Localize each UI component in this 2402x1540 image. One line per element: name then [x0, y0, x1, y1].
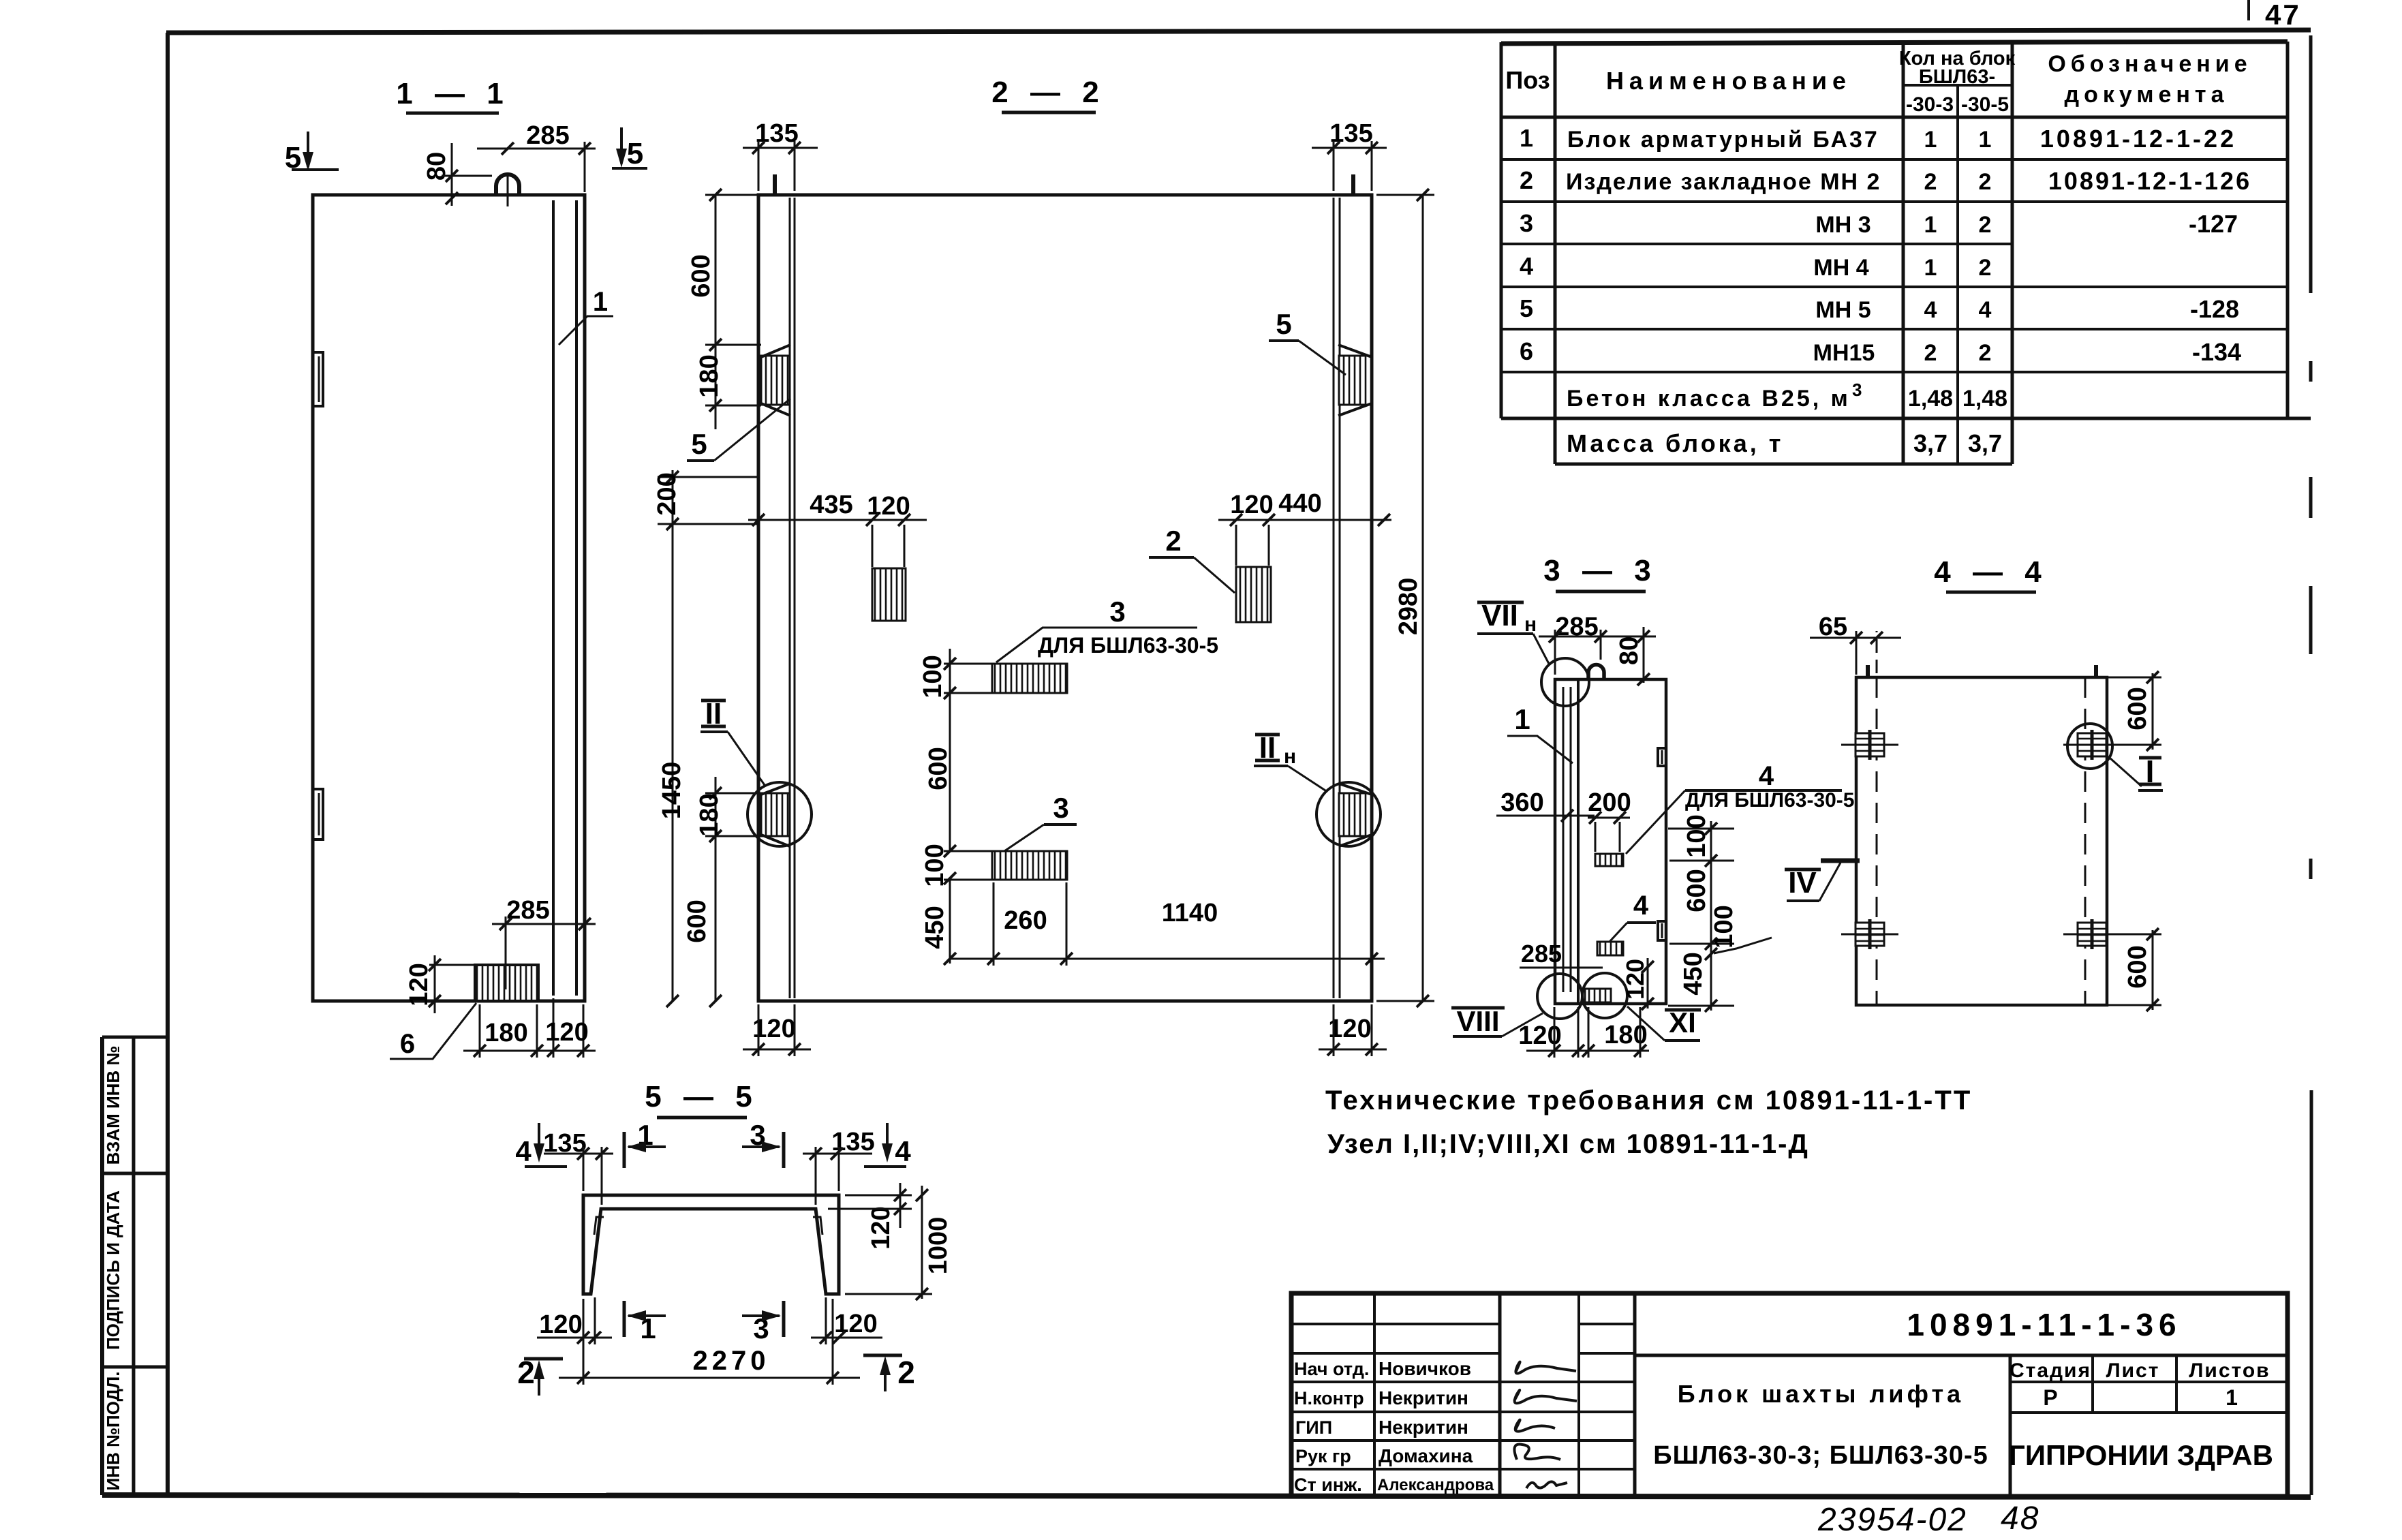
- top tick right wall: [1351, 174, 1355, 195]
- left column cell line 1: [102, 1172, 168, 1175]
- svg-text:600: 600: [1682, 869, 1711, 912]
- svg-text:1: 1: [1979, 127, 1992, 153]
- section 2-2 body outline: [758, 195, 1372, 1001]
- svg-text:435: 435: [810, 491, 852, 519]
- svg-text:120: 120: [867, 492, 910, 521]
- svg-text:2 — 2: 2 — 2: [991, 76, 1105, 109]
- section 3-3 body outline: [1555, 679, 1666, 1004]
- top tick right: [2094, 665, 2098, 677]
- svg-text:1: 1: [1924, 127, 1937, 153]
- svg-text:10891-12-1-22: 10891-12-1-22: [2040, 125, 2236, 153]
- svg-text:120: 120: [539, 1310, 582, 1339]
- stadia values bottom: [2010, 1411, 2288, 1414]
- svg-text:Бетон класса В25, м: Бетон класса В25, м: [1567, 386, 1851, 412]
- section 1-1 title underline: [406, 112, 499, 115]
- svg-text:2270: 2270: [693, 1346, 770, 1376]
- svg-text:180: 180: [695, 354, 724, 397]
- svg-text:120: 120: [545, 1018, 588, 1047]
- list/listov divider: [2175, 1355, 2178, 1413]
- svg-text:Нач отд.: Нач отд.: [1294, 1359, 1369, 1379]
- tie embed bottom right: [2078, 923, 2106, 946]
- embed block IIn right wall: [1339, 793, 1372, 836]
- left inner dim chain: [715, 195, 717, 429]
- row6 bottom: [1501, 371, 2288, 373]
- leg step mark right: [813, 1217, 822, 1235]
- svg-text:1: 1: [1520, 124, 1533, 152]
- sig row gip bottom: [1291, 1439, 1635, 1442]
- svg-text:-30-3: -30-3: [1906, 93, 1954, 116]
- svg-text:документа: документа: [2065, 82, 2229, 108]
- tick before 47: [2247, 0, 2250, 20]
- dashed line right: [2084, 677, 2087, 1005]
- embed block c middle hatched: [992, 664, 1067, 693]
- svg-text:1,48: 1,48: [1962, 386, 2007, 412]
- svg-text:МН15: МН15: [1813, 340, 1875, 366]
- svg-text:2: 2: [1979, 340, 1992, 366]
- row1 bottom: [1501, 158, 2288, 161]
- svg-text:Узел I,II;IV;VIII,XI см 10891: Узел I,II;IV;VIII,XI см 10891-11-1-Д: [1327, 1129, 1809, 1159]
- svg-text:Некритин: Некритин: [1379, 1417, 1468, 1438]
- embed block b upper right hatched: [1236, 567, 1271, 622]
- svg-text:-134: -134: [2192, 338, 2241, 366]
- svg-text:ДЛЯ БШЛ63-30-5: ДЛЯ БШЛ63-30-5: [1038, 633, 1218, 658]
- frame bottom border: [102, 1495, 2311, 1497]
- left column divider: [132, 1037, 136, 1495]
- col divider role/name: [1373, 1293, 1376, 1496]
- svg-text:1450: 1450: [658, 762, 686, 820]
- svg-text:600: 600: [687, 254, 715, 297]
- svg-text:2: 2: [897, 1355, 915, 1390]
- embed plate 4 lower hatched: [1597, 942, 1623, 955]
- row3 bottom (not in doc col): [1501, 243, 2012, 245]
- left wall inner line b: [794, 198, 796, 998]
- svg-text:285: 285: [1521, 940, 1562, 968]
- svg-text:3: 3: [1852, 380, 1862, 400]
- svg-text:2: 2: [1520, 166, 1533, 194]
- left column top line: [102, 1036, 168, 1039]
- row4 bottom: [1501, 286, 2288, 288]
- svg-text:3: 3: [1053, 792, 1068, 824]
- massa row bottom: [1555, 463, 2012, 466]
- top tick left wall: [773, 174, 777, 195]
- svg-text:2: 2: [1924, 340, 1937, 366]
- wall inner boundary: [1577, 679, 1580, 1004]
- svg-text:2: 2: [1979, 255, 1992, 281]
- narrow col extra row lines: [1579, 1323, 1635, 1325]
- svg-text:260: 260: [1004, 906, 1047, 935]
- svg-text:Ст инж.: Ст инж.: [1294, 1475, 1362, 1495]
- embed plate XI hatched: [1585, 989, 1611, 1002]
- cut mark 4 down right: [886, 1123, 889, 1157]
- section 4-4 title underline: [1946, 591, 2036, 594]
- sig row nkontr bottom: [1291, 1411, 1635, 1413]
- col divider sign/narrow: [1577, 1293, 1580, 1496]
- signature 4: [1514, 1444, 1560, 1460]
- embed plate 6 hatched block: [475, 965, 538, 1001]
- svg-text:1: 1: [1924, 212, 1937, 238]
- sig table top row line 1: [1291, 1323, 1500, 1325]
- svg-text:1: 1: [1514, 703, 1530, 735]
- svg-text:ГИПРОНИИ ЗДРАВ: ГИПРОНИИ ЗДРАВ: [2009, 1439, 2273, 1471]
- left edge notch upper: [313, 352, 323, 406]
- svg-text:4: 4: [1633, 891, 1649, 921]
- svg-text:4: 4: [515, 1135, 532, 1167]
- svg-text:-128: -128: [2190, 295, 2239, 323]
- svg-text:2: 2: [1924, 169, 1937, 195]
- svg-text:-127: -127: [2189, 210, 2238, 238]
- embed 5 right wall hatched block: [1339, 356, 1372, 405]
- svg-text:2: 2: [1165, 525, 1181, 557]
- svg-text:Наименование: Наименование: [1606, 67, 1851, 95]
- left outer dim chain: [672, 470, 674, 1001]
- col divider name/qty: [1902, 42, 1905, 464]
- svg-text:ПОДПИСЬ И ДАТА: ПОДПИСЬ И ДАТА: [103, 1190, 123, 1350]
- svg-text:120: 120: [867, 1206, 895, 1249]
- right wall inner line b: [1339, 198, 1341, 998]
- node VIIn circle: [1541, 658, 1589, 706]
- svg-text:4 — 4: 4 — 4: [1934, 555, 2048, 589]
- section 3-3 title underline: [1556, 590, 1646, 594]
- signature 3: [1515, 1420, 1555, 1432]
- col divider poz/name: [1554, 42, 1557, 464]
- svg-text:3,7: 3,7: [1968, 429, 2002, 457]
- section 5-5 title underline: [657, 1116, 747, 1120]
- svg-text:Масса блока, т: Масса блока, т: [1567, 429, 1783, 457]
- col divider narrow/main: [1633, 1293, 1637, 1496]
- node IIn circle right: [1317, 782, 1381, 846]
- svg-text:450: 450: [921, 906, 949, 949]
- svg-text:48: 48: [2001, 1500, 2039, 1537]
- svg-text:Листов: Листов: [2189, 1359, 2270, 1382]
- svg-text:Н.контр: Н.контр: [1294, 1388, 1364, 1408]
- svg-text:1000: 1000: [924, 1217, 953, 1275]
- section 2-2 title underline: [1002, 111, 1096, 114]
- channel inner line a: [552, 200, 555, 996]
- svg-text:4: 4: [1759, 761, 1774, 791]
- svg-text:5 — 5: 5 — 5: [645, 1080, 758, 1113]
- svg-text:6: 6: [400, 1029, 415, 1059]
- svg-text:Новичков: Новичков: [1379, 1358, 1471, 1379]
- top tick left: [1866, 665, 1870, 677]
- header bottom line: [1501, 116, 2288, 119]
- embed plate 4 upper hatched: [1595, 854, 1623, 866]
- qty mid divider: [1956, 85, 1959, 464]
- cut mark 5 right: [620, 127, 623, 164]
- frame right border (dashed scan): [2311, 35, 2311, 1495]
- lower left chain ticks: [709, 787, 722, 799]
- embed block II left wall: [761, 793, 790, 836]
- svg-text:23954-02: 23954-02: [1817, 1502, 1967, 1538]
- table left edge: [1500, 42, 1503, 418]
- stadia header bottom: [2010, 1381, 2288, 1383]
- svg-text:200: 200: [653, 472, 681, 515]
- svg-text:120: 120: [1230, 491, 1273, 519]
- signature 1: [1515, 1362, 1576, 1374]
- svg-text:47: 47: [2265, 0, 2301, 31]
- tie embed top left: [1856, 733, 1884, 756]
- node IV mark on dashed line: [1821, 859, 1860, 863]
- sig row rukgr bottom: [1291, 1468, 1635, 1470]
- svg-text:Блок арматурный БА37: Блок арматурный БА37: [1567, 127, 1879, 153]
- lifting loop: [496, 174, 519, 195]
- section 4-4 body outline: [1856, 677, 2107, 1005]
- svg-text:Лист: Лист: [2106, 1359, 2160, 1382]
- svg-text:1140: 1140: [1162, 899, 1218, 927]
- svg-text:6: 6: [1520, 337, 1533, 365]
- svg-text:285: 285: [526, 121, 569, 150]
- svg-text:3,7: 3,7: [1913, 429, 1947, 457]
- svg-text:180: 180: [695, 793, 724, 836]
- section 1-1 body outline: [313, 195, 585, 1001]
- embed 5 left wall hatched block: [761, 356, 790, 405]
- channel inner line b: [575, 200, 578, 996]
- svg-text:4: 4: [1924, 297, 1937, 323]
- svg-text:-30-5: -30-5: [1961, 93, 2009, 116]
- sig row nachotd bottom: [1291, 1381, 1635, 1383]
- col divider name/sign: [1498, 1293, 1502, 1496]
- leg step mark left: [594, 1217, 604, 1235]
- svg-text:3: 3: [1109, 596, 1125, 628]
- qty header split line: [1903, 84, 2012, 87]
- svg-text:Домахина: Домахина: [1379, 1445, 1473, 1466]
- svg-text:МН 5: МН 5: [1815, 297, 1870, 323]
- embed block a upper left hatched: [872, 568, 906, 621]
- svg-text:3 — 3: 3 — 3: [1543, 554, 1657, 587]
- right edge notch upper: [1658, 748, 1666, 766]
- svg-text:ГИП: ГИП: [1295, 1417, 1332, 1438]
- svg-text:Изделие закладное МН 2: Изделие закладное МН 2: [1566, 169, 1881, 195]
- frame left border: [166, 33, 170, 1495]
- svg-text:1,48: 1,48: [1908, 386, 1953, 412]
- left column cell line 2: [102, 1366, 168, 1369]
- svg-text:5: 5: [691, 428, 707, 460]
- beton row bottom extends to border: [1501, 417, 2311, 420]
- svg-text:ИНВ №ПОДЛ.: ИНВ №ПОДЛ.: [103, 1371, 123, 1490]
- col divider qty/doc: [2011, 42, 2014, 464]
- sig table top row line 2: [1291, 1352, 1500, 1355]
- signature 2: [1514, 1390, 1577, 1403]
- svg-text:285: 285: [506, 896, 549, 925]
- svg-text:1: 1: [593, 287, 608, 317]
- svg-text:БШЛ63-30-3; БШЛ63-30-5: БШЛ63-30-3; БШЛ63-30-5: [1653, 1441, 1988, 1470]
- svg-text:360: 360: [1500, 788, 1543, 817]
- left wall inner line a: [789, 198, 791, 998]
- svg-text:2980: 2980: [1394, 578, 1423, 636]
- svg-text:3: 3: [1520, 209, 1533, 237]
- svg-text:5: 5: [1520, 294, 1533, 322]
- svg-text:600: 600: [2123, 945, 2152, 988]
- svg-text:180: 180: [484, 1019, 527, 1047]
- svg-text:ДЛЯ БШЛ63-30-5: ДЛЯ БШЛ63-30-5: [1685, 789, 1854, 812]
- svg-text:600: 600: [683, 899, 711, 942]
- svg-text:10891-11-1-36: 10891-11-1-36: [1907, 1307, 2181, 1342]
- node II circle left: [748, 782, 812, 846]
- channel line a: [1562, 687, 1565, 992]
- svg-text:450: 450: [1679, 952, 1708, 995]
- svg-text:Стадия: Стадия: [2010, 1359, 2091, 1382]
- frame top border: [166, 30, 2311, 33]
- svg-text:1 — 1: 1 — 1: [396, 77, 510, 110]
- svg-text:600: 600: [2123, 687, 2152, 730]
- svg-text:Александрова: Александрова: [1377, 1476, 1494, 1494]
- svg-text:Р: Р: [2043, 1385, 2057, 1410]
- svg-text:4: 4: [1979, 297, 1992, 323]
- channel line b: [1570, 687, 1572, 992]
- dashed line left: [1876, 677, 1878, 1005]
- svg-text:ВЗАМ ИНВ №: ВЗАМ ИНВ №: [103, 1046, 123, 1165]
- left edge notch lower: [313, 789, 323, 840]
- right dim chain 100 600 100 450: [1710, 821, 1712, 1011]
- svg-text:100: 100: [1710, 905, 1738, 948]
- right edge notch lower: [1658, 921, 1666, 940]
- svg-text:120: 120: [1621, 959, 1649, 1000]
- row2 bottom: [1501, 200, 2288, 203]
- svg-text:1: 1: [2226, 1385, 2238, 1410]
- row5 bottom: [1501, 328, 2288, 330]
- svg-text:100: 100: [919, 655, 947, 698]
- svg-text:VIII: VIII: [1456, 1005, 1499, 1037]
- svg-text:Поз: Поз: [1505, 66, 1550, 94]
- svg-text:2: 2: [1979, 169, 1992, 195]
- svg-text:Обозначение: Обозначение: [2048, 51, 2251, 77]
- svg-text:600: 600: [924, 747, 953, 790]
- title block outer box: [1291, 1293, 2288, 1496]
- table outer top: [1501, 42, 2288, 44]
- svg-text:5: 5: [627, 137, 643, 170]
- tie embed bottom left: [1856, 923, 1884, 946]
- svg-text:Блок шахты лифта: Блок шахты лифта: [1678, 1380, 1964, 1408]
- stadia/list divider: [2091, 1355, 2094, 1413]
- col divider main/right: [2009, 1355, 2012, 1496]
- svg-text:120: 120: [1328, 1015, 1371, 1043]
- svg-text:100: 100: [1682, 814, 1711, 857]
- signature 5: [1526, 1481, 1567, 1488]
- svg-text:440: 440: [1278, 489, 1321, 518]
- svg-text:5: 5: [1276, 308, 1291, 340]
- cut mark 2 up right: [863, 1354, 902, 1357]
- svg-text:Технические требования см: Технические требования см 10891-11-1-ТТ: [1325, 1085, 1972, 1115]
- right wall inner line a: [1333, 198, 1335, 998]
- tie embed top right with node I circle: [2078, 733, 2106, 756]
- node VIII circle: [1537, 974, 1582, 1019]
- svg-text:МН 3: МН 3: [1815, 212, 1870, 238]
- svg-text:4: 4: [1520, 252, 1533, 280]
- node XI circle: [1582, 973, 1627, 1018]
- left column outer line: [100, 1037, 104, 1495]
- svg-text:1: 1: [1924, 255, 1937, 281]
- svg-text:4: 4: [895, 1135, 911, 1167]
- doc number divider line: [1635, 1354, 2288, 1357]
- svg-text:Рук гр: Рук гр: [1295, 1446, 1351, 1466]
- lifting loop top: [1588, 665, 1604, 680]
- channel outline: [583, 1195, 839, 1294]
- svg-text:10891-12-1-126: 10891-12-1-126: [2048, 167, 2251, 195]
- svg-text:БШЛ63-: БШЛ63-: [1919, 66, 1995, 88]
- table right edge: [2286, 42, 2290, 418]
- svg-text:2: 2: [1979, 212, 1992, 238]
- svg-text:МН 4: МН 4: [1813, 255, 1868, 281]
- svg-text:Некритин: Некритин: [1379, 1387, 1468, 1408]
- bottom dim line 180 120: [463, 1050, 596, 1052]
- embed block e lower middle hatched: [992, 851, 1067, 880]
